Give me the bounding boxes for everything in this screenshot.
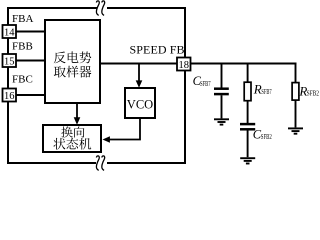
svg-text:VCO: VCO [127,98,153,112]
svg-text:16: 16 [4,91,15,102]
svg-text:SFB7: SFB7 [200,81,211,88]
state machine label line1 换向 [61,126,84,137]
svg-text:SPEED FB: SPEED FB [130,43,185,57]
pin 15 [3,54,17,67]
capacitor C_SFB7 [214,87,229,90]
state machine label line2 状态机 [53,138,91,150]
external node wire from pin 18 [191,63,297,65]
VCO box U-vco [125,88,155,118]
resistor R_SFB7 [244,82,251,101]
ground (C_SFB2) [240,158,255,163]
break mark bottom [96,156,99,171]
svg-text:SFB2: SFB2 [307,91,319,98]
svg-text:15: 15 [4,56,15,67]
wire sampler down to state machine with arrow [76,103,78,118]
wire sampler to pin18 (SPEED FB node) [100,63,177,65]
wire pin14 to sampler [9,31,45,33]
svg-text:FBB: FBB [12,41,33,53]
svg-text:FBA: FBA [12,13,33,25]
svg-text:18: 18 [179,60,190,71]
resistor R_SFB2 [292,83,299,101]
sampler label line1 反电势 [54,51,91,63]
IC boundary rectangle [8,8,185,163]
pin 18 [177,58,191,71]
pin 14 [3,25,17,38]
back-EMF sampler box U-sampler [45,20,100,103]
svg-text:SFB2: SFB2 [261,134,272,141]
ground (R_SFB2) [288,128,303,133]
wire pin15 to sampler [9,60,45,62]
wire R_SFB7 to C_SFB2 [247,101,249,123]
sampler label line2 取样器 [54,66,92,78]
svg-text:14: 14 [4,27,15,38]
capacitor C_SFB2 [240,123,255,126]
wire R_SFB2 to ground [295,100,297,127]
branch wire to C_SFB7 [221,64,223,89]
wire pin16 to sampler [9,94,45,96]
wire VCO to state machine with arrow [109,118,140,140]
svg-text:SFB7: SFB7 [261,89,272,96]
wire C_SFB2 to ground [247,131,249,158]
svg-text:FBC: FBC [12,74,33,86]
branch wire to R_SFB2 [295,63,297,84]
branch wire to R_SFB7 [247,64,249,83]
ground (C_SFB7) [214,119,229,124]
commutation state machine box [43,125,101,152]
break mark top [96,1,99,16]
pin 16 [3,89,17,102]
wire branch down to VCO with arrow [138,64,140,82]
